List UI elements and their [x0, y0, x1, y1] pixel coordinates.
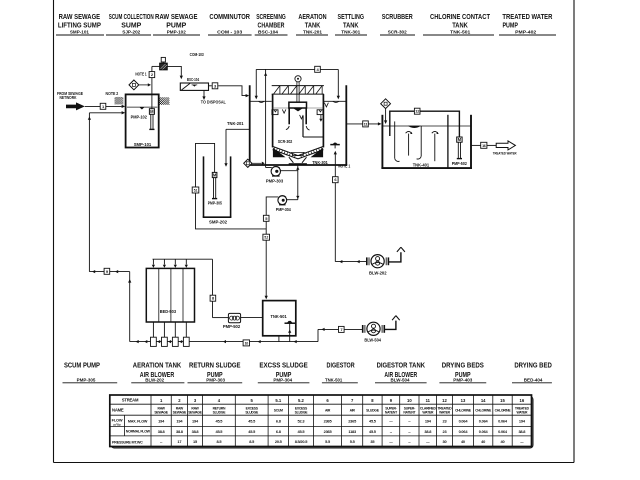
svg-text:NAME: NAME [112, 408, 124, 413]
wire scum pump discharge tag 5.1 [192, 143, 266, 229]
title COMMINUTOR COM - 103 [208, 12, 252, 36]
svg-text:10: 10 [407, 398, 412, 403]
settling tank effluent weirs [272, 103, 329, 115]
svg-text:CHLORINE: CHLORINE [475, 409, 492, 413]
tank TNK-501 digester [263, 301, 296, 336]
svg-text:WATER: WATER [439, 410, 451, 414]
svg-text:40: 40 [481, 439, 485, 444]
svg-text:45.5: 45.5 [298, 429, 306, 434]
wire digester bottom drain [278, 336, 280, 342]
svg-text:5.1: 5.1 [275, 398, 281, 403]
svg-text:CHAMBER: CHAMBER [258, 21, 286, 30]
water level left of settling tank [250, 101, 272, 102]
svg-text:5.2: 5.2 [298, 398, 304, 403]
svg-text:2365: 2365 [324, 429, 333, 434]
title SCREENING BSC-104 [255, 12, 288, 36]
svg-text:M: M [150, 109, 154, 114]
title DRYING BED BED-404 [512, 361, 552, 384]
tank SMP-202 scum collection sump [203, 156, 232, 224]
title RAW SEWAGE PMP-102 [153, 12, 200, 36]
wire supernatant return into SMP-101 [88, 111, 125, 271]
svg-text:0.064: 0.064 [459, 419, 469, 424]
svg-text:SEWAGE: SEWAGE [173, 410, 187, 414]
svg-text:FLOW: FLOW [112, 417, 123, 422]
svg-text:15: 15 [500, 398, 505, 403]
svg-text:TNK-401: TNK-401 [413, 163, 430, 168]
svg-text:RETURN SLUDGE: RETURN SLUDGE [189, 361, 241, 370]
wire screenings drain TO DISPOSAL [201, 90, 226, 104]
title DIGESTOR TANK BLW-504 [375, 361, 427, 384]
pump PMP-303 return sludge pump [266, 166, 298, 183]
svg-text:NETWORK: NETWORK [60, 95, 77, 100]
pump PMP-102 submersible in SMP-101 [149, 109, 154, 130]
tank SCR-302 settling tank inner wall [273, 94, 324, 147]
svg-text:14: 14 [481, 398, 486, 403]
svg-text:LIFTING SUMP: LIFTING SUMP [58, 21, 101, 30]
svg-text:194: 194 [158, 419, 165, 424]
svg-text:PMP-102: PMP-102 [131, 115, 148, 120]
svg-text:PUMP: PUMP [276, 370, 292, 379]
svg-text:1183: 1183 [348, 429, 357, 434]
svg-text:40: 40 [501, 439, 505, 444]
svg-text:EXCSS SLUDGE: EXCSS SLUDGE [259, 361, 308, 370]
svg-text:38.8: 38.8 [518, 429, 526, 434]
svg-text:PMP-502: PMP-502 [452, 161, 468, 166]
svg-text:10: 10 [245, 341, 249, 345]
title SCRUBBER SCR-302 [380, 12, 415, 36]
svg-text:38.8: 38.8 [176, 429, 184, 434]
svg-text:12: 12 [442, 398, 447, 403]
wire scum draw from aeration tank to SMP-202 [224, 129, 249, 167]
svg-text:CHLORINE CONTACT: CHLORINE CONTACT [430, 12, 490, 21]
settling tank feedwell [286, 102, 310, 130]
svg-text:BED-503: BED-503 [160, 309, 177, 314]
svg-text:PMP-305: PMP-305 [208, 201, 223, 206]
svg-text:CHLORINE: CHLORINE [495, 409, 512, 413]
svg-text:52.3: 52.3 [298, 419, 306, 424]
svg-text:SUMP: SUMP [121, 21, 141, 30]
svg-text:COMMINUTOR: COMMINUTOR [209, 12, 250, 21]
svg-text:TANK: TANK [343, 21, 359, 30]
svg-text:45.5: 45.5 [216, 419, 224, 424]
svg-text:SEWAGE: SEWAGE [154, 410, 168, 414]
blower BLW-504 digester air blower [363, 322, 385, 342]
svg-text:PUMP: PUMP [455, 370, 471, 379]
svg-text:SMP-202: SMP-202 [209, 220, 227, 225]
svg-text:SMP-101: SMP-101 [134, 142, 152, 147]
svg-text:PUMP: PUMP [166, 21, 186, 30]
svg-text:STREAM: STREAM [122, 398, 139, 403]
title AERATION TANK BLW-202 [131, 361, 184, 384]
title SETTLING TNK-301 [335, 12, 367, 36]
svg-text:AERATION: AERATION [298, 12, 326, 21]
digester air diffuser [285, 321, 296, 342]
svg-text:16: 16 [482, 144, 486, 148]
svg-text:0.064: 0.064 [479, 429, 489, 434]
svg-text:0.064: 0.064 [459, 429, 469, 434]
svg-text:RAW SEWAGE: RAW SEWAGE [155, 12, 198, 21]
screening chamber BSC-104 [180, 77, 208, 90]
svg-text:45.5: 45.5 [248, 429, 256, 434]
svg-text:CHLORINE: CHLORINE [455, 409, 472, 413]
svg-text:16: 16 [520, 398, 525, 403]
svg-text:SCUM PUMP: SCUM PUMP [64, 361, 100, 370]
pump PMP-304 excess sludge pump [276, 196, 300, 212]
svg-text:DIGESTOR: DIGESTOR [327, 361, 356, 370]
treated water outline arrow [493, 141, 517, 156]
pump PMP-305 scum pump [208, 172, 223, 205]
settling tank hopper with scraper [273, 146, 324, 158]
svg-text:NOTE 1: NOTE 1 [338, 163, 351, 168]
raw sewage inlet arrow FROM SEWAGE NETWORK [57, 91, 85, 110]
svg-text:COM-103: COM-103 [190, 52, 205, 57]
title SCUM PUMP PMP-305 [63, 361, 118, 384]
svg-text:BSC-104: BSC-104 [187, 77, 200, 82]
instrument diamond on return sludge suction [244, 159, 265, 167]
svg-text:RAW SEWAGE: RAW SEWAGE [59, 12, 101, 21]
aeration tank air diffuser [330, 143, 340, 149]
instrument diamond chlorine dosing [381, 99, 391, 124]
title EXCSS SLUDGE PMP-304 [258, 361, 310, 384]
svg-text:NORMAL FLOW: NORMAL FLOW [126, 430, 151, 434]
svg-text:0.064: 0.064 [479, 419, 489, 424]
svg-text:SCRUBBER: SCRUBBER [382, 12, 414, 21]
svg-text:SLUDGE: SLUDGE [245, 410, 259, 414]
svg-text:TNK-501: TNK-501 [271, 314, 288, 319]
svg-text:194: 194 [425, 419, 432, 424]
title DRYING BEDS PMP-403 [439, 361, 486, 384]
svg-text:AIR BLOWER: AIR BLOWER [384, 370, 417, 379]
tank SMP-101 raw sewage lifting sump [126, 94, 159, 147]
svg-text:2365: 2365 [324, 419, 333, 424]
svg-text:0.064: 0.064 [498, 429, 508, 434]
svg-text:SCREENING: SCREENING [256, 12, 286, 21]
svg-text:38.8: 38.8 [158, 429, 166, 434]
blower BLW-202 aeration air blower [367, 255, 389, 276]
svg-text:45.5: 45.5 [248, 419, 256, 424]
svg-text:11: 11 [426, 398, 431, 403]
wire PMP-102 discharge riser with tag 2 [135, 66, 154, 108]
svg-text:38.8: 38.8 [192, 429, 200, 434]
pump PMP-502 digested sludge pump [213, 313, 263, 329]
settling tank access bridge truss [272, 86, 324, 95]
svg-text:8.5/20.5: 8.5/20.5 [295, 439, 308, 444]
wire sludge drawoff from cone [296, 165, 299, 200]
svg-text:5.2: 5.2 [264, 236, 268, 240]
svg-text:NATENT: NATENT [403, 410, 416, 414]
svg-text:m³/hr: m³/hr [113, 423, 121, 427]
wire supernatant bottom header with tag 10 [130, 340, 318, 346]
settling tank sludge cone outlet [289, 152, 328, 165]
svg-text:5.1: 5.1 [194, 189, 198, 193]
title SCUM COLLECTION SJP-202 [106, 12, 154, 36]
svg-text:BLW-504: BLW-504 [364, 338, 381, 343]
settling tank launder downcomer [300, 115, 324, 137]
svg-text:TO DISPOSAL: TO DISPOSAL [201, 100, 226, 105]
svg-text:TANK: TANK [452, 21, 468, 30]
svg-text:SCR-302: SCR-302 [278, 139, 293, 144]
svg-text:TREATED WATER: TREATED WATER [502, 12, 553, 21]
svg-text:0.064: 0.064 [498, 419, 508, 424]
svg-text:TANK: TANK [305, 21, 321, 30]
wire excess sludge to digester tags 5 and 5.2 [263, 197, 278, 300]
title RAW SEWAGE SMP-101 [56, 12, 104, 36]
wire clarified water to chlorine tank tag 11 [346, 121, 381, 127]
wire treated water recycle tag 12 [390, 108, 460, 137]
chlorine tank baffles and flow arrows [395, 121, 439, 161]
svg-text:13: 13 [461, 398, 466, 403]
drying bed underdrain valves [151, 322, 190, 346]
svg-text:PRESSURE MT.WC: PRESSURE MT.WC [112, 440, 143, 444]
svg-text:TNK-201: TNK-201 [227, 121, 244, 126]
svg-text:SLUDGE: SLUDGE [366, 409, 380, 413]
svg-text:SLUDGE: SLUDGE [295, 410, 309, 414]
wire screened sewage to aeration tank with tag 3 [209, 83, 250, 97]
svg-text:PMP-502: PMP-502 [223, 324, 241, 329]
svg-text:DRYING BED: DRYING BED [514, 361, 552, 370]
wire treated water outlet tag 16 [471, 142, 496, 148]
svg-text:WATER: WATER [516, 410, 528, 414]
svg-text:NATENT: NATENT [385, 410, 398, 414]
tank TNK-401 chlorine contact tank [381, 115, 472, 168]
settling tank scraper drive motor [295, 76, 301, 102]
svg-text:17: 17 [177, 439, 181, 444]
tank TNK-201 aeration tank outer shell [227, 85, 347, 165]
svg-text:194: 194 [176, 419, 183, 424]
svg-text:BLW-202: BLW-202 [369, 270, 387, 275]
title RETURN SLUDGE PMP-303 [188, 361, 243, 384]
svg-text:M: M [213, 172, 217, 177]
svg-text:PUMP: PUMP [207, 370, 223, 379]
title TREATED WATER PMP-402 [499, 12, 556, 36]
svg-text:20.5: 20.5 [275, 439, 283, 444]
svg-text:NOTE 2: NOTE 2 [106, 91, 119, 96]
svg-text:TREATED WATER: TREATED WATER [493, 151, 517, 156]
svg-text:AERATION TANK: AERATION TANK [133, 361, 182, 370]
svg-text:DRYING BEDS: DRYING BEDS [442, 361, 484, 370]
svg-text:AIR BLOWER: AIR BLOWER [140, 370, 175, 379]
svg-text:SETTLING: SETTLING [338, 12, 365, 21]
title AERATION TNK-201 [296, 12, 328, 36]
stream table [110, 395, 533, 448]
svg-text:M: M [458, 137, 462, 142]
svg-text:NOTE 1: NOTE 1 [135, 72, 147, 77]
wire return sludge header with tag 4 [255, 66, 340, 99]
svg-text:PMP-303: PMP-303 [266, 179, 284, 184]
svg-text:194: 194 [192, 419, 199, 424]
note 2 ground hatching [106, 91, 170, 105]
wire digester air line tag 7 [318, 326, 363, 341]
wire raw sewage line to SMP-101 with tag 1 [85, 103, 125, 109]
svg-text:SCUM: SCUM [274, 409, 283, 413]
svg-text:SCUM COLLECTION: SCUM COLLECTION [109, 12, 154, 21]
svg-text:WATER: WATER [422, 410, 434, 414]
svg-text:45.5: 45.5 [216, 429, 224, 434]
pump PMP-502 treated water pump in tank [452, 137, 468, 166]
wire drying bed feed manifold [152, 259, 216, 317]
svg-text:DIGESTOR TANK: DIGESTOR TANK [377, 361, 426, 370]
title DIGESTOR TNK-501 [322, 361, 358, 384]
svg-text:TNK-301: TNK-301 [312, 160, 328, 165]
title CHLORINE CONTACT TNK-501 [423, 12, 494, 36]
water level right of settling tank [323, 101, 346, 102]
svg-text:SLUDGE: SLUDGE [213, 410, 227, 414]
svg-text:194: 194 [519, 419, 526, 424]
svg-text:AIR: AIR [325, 409, 331, 413]
comminutor COM-103 [152, 52, 204, 70]
tank BED-503 sludge drying beds [146, 268, 194, 322]
svg-text:45.5: 45.5 [369, 419, 377, 424]
blower BLW-202 intake elbow [388, 247, 405, 262]
wire comminutor outlet to screening chamber [167, 66, 183, 79]
wire return sludge riser from PMP-303 [264, 69, 267, 167]
wire supernatant riser and tag 9 [89, 268, 131, 341]
svg-text:PMP-304: PMP-304 [276, 207, 291, 212]
svg-text:2365: 2365 [348, 419, 357, 424]
svg-text:40: 40 [461, 439, 465, 444]
svg-text:MAX. FLOW: MAX. FLOW [128, 419, 148, 423]
svg-text:PUMP: PUMP [502, 21, 518, 30]
wire aeration air line tag 6 to diffuser [333, 151, 367, 263]
svg-text:38.8: 38.8 [424, 429, 432, 434]
svg-text:30: 30 [443, 439, 447, 444]
blower BLW-504 intake elbow [384, 316, 399, 330]
instrument diamond on PMP-102 riser [129, 80, 151, 90]
svg-text:SEWAGE: SEWAGE [188, 410, 202, 414]
svg-text:AIR: AIR [350, 409, 356, 413]
svg-text:45.5: 45.5 [369, 429, 377, 434]
